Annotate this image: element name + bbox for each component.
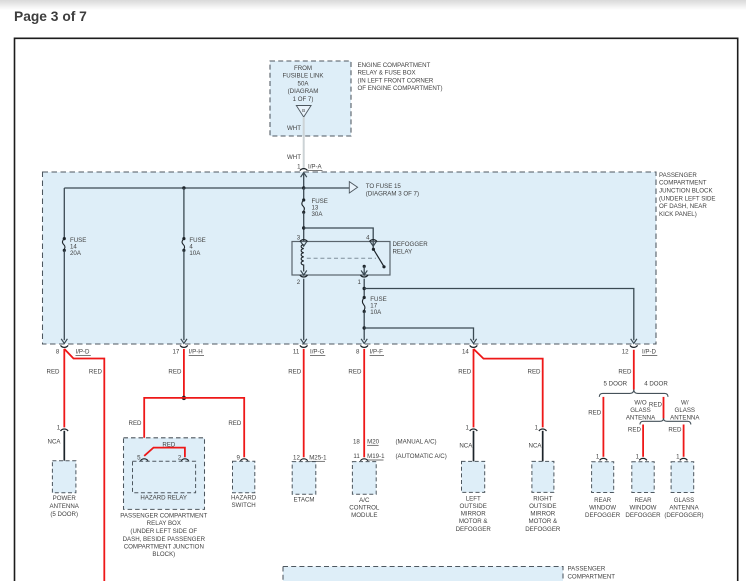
svg-text:REAR: REAR [594,497,612,504]
hazard relay pin 5 label [137,455,141,462]
label WHT inside box [287,125,301,132]
svg-text:10A: 10A [189,250,201,257]
svg-text:5: 5 [137,455,141,462]
svg-text:30A: 30A [312,211,324,218]
relay pin 1 arrow [361,270,367,275]
wire relay pin1 down [363,279,365,298]
relay pin 4 label [366,235,370,242]
svg-text:ANTENNA: ANTENNA [626,414,656,421]
svg-text:NCA: NCA [48,438,62,445]
junction block caption [659,172,716,218]
svg-text:1 OF 7): 1 OF 7) [293,96,314,103]
svg-text:12: 12 [622,349,629,356]
relay pin 2 arrow [301,270,307,275]
hazard switch caption [231,494,257,509]
label RED ETACM wire [288,369,302,376]
defogger relay box [292,242,390,276]
relay switch blade [374,250,384,267]
relay pin1 contact [363,265,366,268]
svg-text:DEFOGGER: DEFOGGER [585,512,621,519]
AC control module box [352,462,376,495]
left mirror pin 1 cup [470,429,478,431]
svg-text:TO FUSE 15: TO FUSE 15 [366,183,402,190]
svg-text:RED: RED [228,420,242,427]
svg-text:RED: RED [162,441,176,448]
label W/O GLASS ANTENNA [626,399,656,421]
svg-text:WHT: WHT [287,125,301,132]
svg-text:DEFOGGER: DEFOGGER [525,526,561,533]
svg-text:5 DOOR: 5 DOOR [604,381,628,388]
fuse 13 value label [312,198,328,218]
pin 12 I/P-D cup [630,345,638,347]
svg-text:MIRROR: MIRROR [461,511,486,518]
svg-text:ANTENNA: ANTENNA [50,503,80,510]
svg-text:POWER: POWER [53,495,77,502]
relay pin 3 arrow [301,242,307,247]
wire red w-glass antenna [683,425,685,457]
wire red pin12 down [633,350,635,390]
pin 8 I/P-F cup [360,345,368,347]
svg-text:2: 2 [297,279,301,286]
hazard relay inner box [133,461,196,492]
wire red pin8F to AC module [363,349,365,457]
5door defogger pin 1 cup [600,458,608,460]
wire red pin14 to left mirror [473,349,475,428]
node defogger feed junction [363,287,366,290]
label NCA left mirror [459,442,473,449]
rear window defogger 4door caption [625,497,661,519]
svg-text:B: B [302,108,305,113]
page header bar [0,0,746,24]
svg-text:M20: M20 [367,439,380,446]
svg-text:(UNDER LEFT SIDE: (UNDER LEFT SIDE [659,195,716,202]
passenger compartment relay box caption [120,512,207,558]
fuse F14 [62,237,65,252]
svg-text:50A: 50A [298,80,310,87]
svg-text:FROM: FROM [294,65,312,72]
svg-text:COMPARTMENT: COMPARTMENT [659,180,707,187]
glass antenna caption [664,497,703,519]
svg-text:SWITCH: SWITCH [231,502,255,509]
svg-text:8: 8 [56,349,60,356]
AC pin 18 M20 labels [353,439,437,446]
svg-text:RIGHT: RIGHT [533,496,552,503]
arrow pin 11 I/P-G [301,339,307,344]
svg-text:W/O: W/O [634,399,647,406]
label W/ GLASS ANTENNA [670,399,700,421]
wire branch to pin 14 [364,328,473,340]
wire main upper [303,188,305,200]
left outside mirror box [462,461,485,492]
AC control module caption [349,497,380,519]
pin 14 cup [470,345,478,347]
wire red pin8 to power antenna [63,349,65,428]
label RED 5door wire [588,409,602,416]
node bus-main junction [302,186,305,189]
svg-text:RED: RED [288,369,302,376]
pin 14 label [462,349,469,356]
w-glass antenna pin 1 label [676,454,680,461]
svg-text:RED: RED [129,420,143,427]
wo-glass defogger pin 1 cup [639,458,647,460]
label RED left mirror wire [458,369,472,376]
relay switch pivot [372,248,375,251]
svg-text:RED: RED [668,427,682,434]
AC module cup [360,459,368,461]
svg-text:(IN LEFT FRONT CORNER: (IN LEFT FRONT CORNER [358,77,434,84]
arrow pin 8 I/P-D [61,339,67,344]
relay pin 3 cup [300,240,308,242]
wire red pin11 to ETACM [303,349,305,457]
pin 8 I/P-F labels [356,349,384,356]
label RED offpage wire [89,369,103,376]
svg-text:(UNDER LEFT SIDE OF: (UNDER LEFT SIDE OF [130,528,197,535]
svg-text:ETACM: ETACM [293,497,314,504]
hazard switch box [233,461,255,492]
pin 8 I/P-D labels [56,349,91,356]
svg-text:NCA: NCA [529,442,543,449]
svg-text:COMPARTMENT: COMPARTMENT [568,574,616,581]
pin 1 I/P-A labels [297,164,322,171]
svg-text:FUSIBLE LINK: FUSIBLE LINK [283,73,325,80]
svg-text:RED: RED [649,401,663,408]
fusible link label [283,65,325,103]
left outside mirror caption [456,496,492,533]
label 4 DOOR [644,381,668,388]
svg-text:RED: RED [458,369,472,376]
svg-text:1: 1 [57,424,61,431]
passenger compartment relay box [124,438,205,510]
svg-text:I/P-H: I/P-H [189,349,203,356]
node mirror feed junction [363,326,366,329]
svg-text:(AUTOMATIC A/C): (AUTOMATIC A/C) [396,453,447,460]
next box caption [568,566,616,581]
wire fuse4 upper [183,188,185,239]
svg-text:10A: 10A [370,309,382,316]
svg-text:M25-1: M25-1 [309,455,327,462]
svg-text:GLASS: GLASS [675,407,695,414]
hazard relay pin 2 cup [181,459,189,461]
engine compartment relay & fuse box caption [358,62,443,92]
wire red 4door stub [663,397,665,419]
svg-text:RED: RED [47,369,61,376]
relay switch blade tip [382,265,385,268]
relay pin 2 cup [300,275,308,277]
svg-text:RED: RED [528,369,542,376]
off-page triangle B [296,106,311,118]
svg-text:Page 3 of 7: Page 3 of 7 [14,9,87,24]
right outside mirror box [532,461,554,492]
svg-text:18: 18 [353,439,360,446]
rear window defogger 5door caption [585,497,621,519]
5door defogger pin 1 label [596,454,600,461]
defogger relay caption [393,241,429,256]
node bus-fuse4 junction [182,186,185,189]
ETACM pin 12 cup [300,459,308,461]
fuse F13 [302,198,305,214]
svg-text:12: 12 [293,455,300,462]
label RED w-glass wire [668,427,682,434]
svg-text:WINDOW: WINDOW [630,504,657,511]
wo-glass defogger pin 1 label [636,454,640,461]
svg-text:RELAY BOX: RELAY BOX [147,520,181,527]
relay internal dashed link [307,257,376,259]
svg-text:HAZARD RELAY: HAZARD RELAY [140,494,187,501]
pin 11 I/P-G cup [300,345,308,347]
right mirror pin 1 label [535,424,539,431]
svg-text:DEFOGGER: DEFOGGER [393,241,429,248]
rear window defogger 5door box [592,462,614,493]
bus wire horizontal [64,187,303,189]
svg-text:OF ENGINE COMPARTMENT): OF ENGINE COMPARTMENT) [358,85,443,92]
svg-text:1: 1 [676,454,680,461]
svg-text:A/C: A/C [359,497,370,504]
wire branch to pin 12 [364,289,634,341]
glass antenna box [671,462,694,493]
right mirror pin 1 cup [539,429,547,431]
svg-text:1: 1 [596,454,600,461]
label WHT on wire [287,154,301,161]
label RED wo-glass wire [628,427,642,434]
label RED power antenna wire [47,369,61,376]
arrow pin 8 I/P-F [361,339,367,344]
right outside mirror caption [525,496,561,533]
svg-text:(DEFOGGER): (DEFOGGER) [664,512,703,519]
svg-text:DASH, BESIDE PASSENGER: DASH, BESIDE PASSENGER [123,536,206,543]
svg-text:JUNCTION BLOCK: JUNCTION BLOCK [659,188,713,195]
fuse 14 value label [70,237,86,257]
svg-text:20A: 20A [70,250,82,257]
hazard relay caption [140,494,187,501]
wire NCA power antenna [63,431,65,461]
hazard switch pin 9 cup [240,459,248,461]
svg-text:BLOCK): BLOCK) [152,551,175,558]
svg-text:2: 2 [178,455,182,462]
svg-text:MODULE: MODULE [351,512,377,519]
arrow pin 17 I/P-H [181,339,187,344]
wire fuse14 upper [63,188,65,239]
svg-text:CONTROL: CONTROL [349,505,380,512]
svg-text:W/: W/ [681,399,689,406]
wire to fuse15 branch [304,187,350,189]
wire red 5door defogger [602,397,604,457]
fuse F17 [362,296,365,313]
to fuse 15 caption [366,183,419,198]
svg-text:1: 1 [357,279,361,286]
svg-text:M19-1: M19-1 [367,453,385,460]
wire WHT from fusible link [303,117,305,169]
wire fuse17 lower [363,312,365,341]
label NCA right mirror [529,442,543,449]
svg-text:(DIAGRAM 3 OF 7): (DIAGRAM 3 OF 7) [366,191,419,198]
svg-text:I/P-A: I/P-A [308,164,323,171]
label NCA power antenna [48,438,62,445]
label RED pin17 wire [168,369,182,376]
svg-text:RED: RED [89,369,103,376]
label RED jumper [162,441,176,448]
svg-text:PASSENGER: PASSENGER [568,566,606,573]
svg-text:RED: RED [588,409,602,416]
svg-text:OF DASH, NEAR: OF DASH, NEAR [659,203,707,210]
wire red to hazard relay [144,398,184,456]
wire branch to relay pin 4 [304,228,374,242]
wire NCA left mirror [473,431,475,462]
svg-text:WINDOW: WINDOW [589,504,616,511]
pin 8 I/P-D cup [61,345,69,347]
svg-text:(5 DOOR): (5 DOOR) [50,511,78,518]
svg-text:11: 11 [293,349,300,356]
wire red pin17 down [183,349,185,398]
svg-text:LEFT: LEFT [466,496,481,503]
svg-text:RED: RED [168,369,182,376]
wire fuse4 lower [183,250,185,340]
rear window defogger 4door box [632,462,654,493]
relay pin 1 label [357,279,361,286]
fuse 17 value label [370,296,386,316]
pin 17 I/P-H cup [180,345,188,347]
next passenger compartment dashed box [283,567,563,581]
svg-text:MIRROR: MIRROR [530,511,555,518]
svg-text:GLASS: GLASS [674,497,694,504]
power antenna pin 1 cup [61,429,69,431]
pin 17 I/P-H labels [172,349,204,356]
svg-text:RELAY: RELAY [393,249,413,256]
arrow pin 12 I/P-D [631,339,637,344]
hazard relay pin 5 cup [140,459,148,461]
relay pin 2 label [297,279,301,286]
svg-text:OUTSIDE: OUTSIDE [529,503,556,510]
svg-text:RED: RED [618,369,632,376]
svg-text:4 DOOR: 4 DOOR [644,381,668,388]
left mirror pin 1 label [465,424,469,431]
svg-text:HAZARD: HAZARD [231,494,257,501]
fuse 4 value label [189,237,205,257]
relay pin1 wire [363,266,365,275]
label RED right mirror wire [528,369,542,376]
svg-text:1: 1 [465,424,469,431]
svg-text:REAR: REAR [634,497,652,504]
hazard relay pin 2 label [178,455,182,462]
wire NCA right mirror [542,431,544,462]
wire relay pin2 down [303,279,305,341]
svg-text:(DIAGRAM: (DIAGRAM [288,88,319,95]
svg-text:11: 11 [353,453,360,460]
svg-text:ANTENNA: ANTENNA [669,504,699,511]
svg-text:OUTSIDE: OUTSIDE [460,503,487,510]
label RED AC wire [348,369,362,376]
svg-text:I/P-F: I/P-F [370,349,384,356]
relay pin 1 cup [360,275,368,277]
pin 12 I/P-D labels [622,349,658,356]
fuse F4 [182,237,185,252]
svg-text:NCA: NCA [459,442,473,449]
relay pin 4 arrow [370,242,376,247]
ETACM pin labels [293,455,327,462]
relay switch pivot wire [372,242,374,250]
svg-text:1: 1 [535,424,539,431]
svg-text:GLASS: GLASS [630,407,650,414]
svg-text:DEFOGGER: DEFOGGER [625,512,661,519]
connector cup at I/P-A [300,169,308,171]
label RED pin12 wire [618,369,632,376]
bracket door split [599,389,668,397]
arrow pin 14 [470,339,476,344]
svg-text:17: 17 [172,349,179,356]
relay pin 3 label [297,235,301,242]
svg-text:KICK PANEL): KICK PANEL) [659,211,697,218]
svg-text:I/P-G: I/P-G [310,349,325,356]
svg-text:RELAY & FUSE BOX: RELAY & FUSE BOX [358,70,416,77]
power antenna caption [50,495,80,518]
AC pin 11 M19-1 labels [353,453,446,460]
svg-text:MOTOR &: MOTOR & [459,518,488,525]
svg-text:ANTENNA: ANTENNA [670,414,700,421]
ETACM caption [293,497,314,504]
power antenna pin 1 label [57,424,61,431]
hazard switch pin 9 label [236,455,240,462]
label RED hazard relay wire [129,420,143,427]
wire red hazard relay jumper [144,448,185,458]
wire red wo-glass defogger [642,425,644,457]
wire red pin8 to offpage [64,349,104,581]
svg-text:DEFOGGER: DEFOGGER [456,526,492,533]
label 5 DOOR [604,381,628,388]
svg-text:I/P-D: I/P-D [642,349,657,356]
svg-text:MOTOR &: MOTOR & [529,518,558,525]
w-glass antenna pin 1 cup [680,458,688,460]
svg-text:9: 9 [236,455,240,462]
wire main to relay [303,212,305,241]
bracket glass antenna split [640,418,691,424]
node relay branch junction [302,226,305,229]
svg-text:PASSENGER COMPARTMENT: PASSENGER COMPARTMENT [120,512,207,519]
arrow into junction block at pin 1 [301,173,307,178]
power antenna box [52,461,76,493]
passenger compartment junction block dashed box [43,172,657,344]
svg-text:8: 8 [356,349,360,356]
relay coil [301,245,304,272]
svg-text:RED: RED [348,369,362,376]
svg-text:1: 1 [636,454,640,461]
svg-text:RED: RED [628,427,642,434]
relay pin 4 cup [369,240,377,242]
svg-text:COMPARTMENT JUNCTION: COMPARTMENT JUNCTION [124,544,204,551]
svg-text:(MANUAL A/C): (MANUAL A/C) [396,439,437,446]
pin 11 I/P-G labels [293,349,325,356]
svg-text:ENGINE COMPARTMENT: ENGINE COMPARTMENT [358,62,431,69]
svg-text:3: 3 [297,235,301,242]
wire fuse14 lower [63,250,65,340]
svg-text:PASSENGER: PASSENGER [659,172,697,179]
label RED 4door stub [649,401,663,408]
wire pin1 to bus [303,173,305,188]
svg-text:14: 14 [462,349,469,356]
svg-text:WHT: WHT [287,154,301,161]
off-page triangle to fuse 15 [349,182,357,193]
label RED hazard switch wire [228,420,242,427]
wire red to hazard switch [184,398,244,457]
svg-text:I/P-D: I/P-D [76,349,91,356]
svg-text:4: 4 [366,235,370,242]
engine compartment fuse box (fusible link source) dashed box [270,61,351,136]
node hazard split [182,396,186,400]
wire red pin14 to right mirror [474,349,543,428]
ETACM box [292,462,316,495]
